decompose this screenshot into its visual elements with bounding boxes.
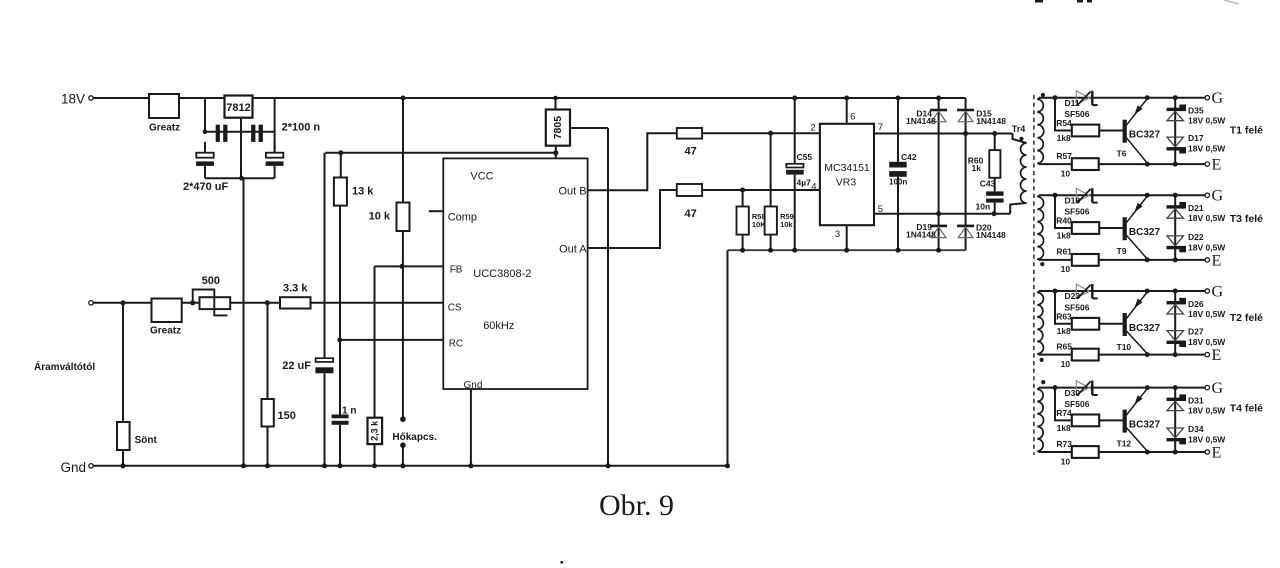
svg-text:1k8: 1k8 — [1057, 423, 1071, 433]
svg-text:47: 47 — [685, 208, 697, 220]
svg-text:100n: 100n — [889, 178, 907, 187]
svg-text:18V 0,5W: 18V 0,5W — [1188, 337, 1226, 347]
svg-text:BC327: BC327 — [1129, 323, 1161, 334]
svg-text:18V 0,5W: 18V 0,5W — [1188, 435, 1226, 445]
svg-text:1k8: 1k8 — [1057, 133, 1071, 143]
svg-text:3.3 k: 3.3 k — [283, 283, 308, 295]
svg-text:1k: 1k — [972, 163, 982, 173]
svg-text:Greatz: Greatz — [150, 326, 181, 337]
svg-text:R73: R73 — [1056, 439, 1072, 449]
svg-text:BC327: BC327 — [1129, 130, 1161, 141]
svg-text:D23: D23 — [1065, 291, 1081, 301]
svg-text:10: 10 — [1061, 456, 1071, 466]
svg-text:Obr. 9: Obr. 9 — [599, 489, 674, 522]
svg-text:Sönt: Sönt — [135, 435, 158, 446]
svg-text:D22: D22 — [1188, 232, 1204, 242]
svg-text:18V 0,5W: 18V 0,5W — [1188, 242, 1226, 252]
svg-text:VCC: VCC — [470, 171, 493, 183]
svg-text:T3 felé: T3 felé — [1230, 213, 1263, 225]
svg-text:3: 3 — [835, 229, 840, 240]
svg-text:T1 felé: T1 felé — [1230, 125, 1263, 137]
svg-text:22 uF: 22 uF — [282, 360, 311, 372]
svg-text:2: 2 — [810, 123, 815, 134]
svg-text:E: E — [1212, 347, 1222, 364]
svg-text:Gnd: Gnd — [464, 380, 483, 391]
svg-text:Gnd: Gnd — [61, 460, 87, 475]
svg-text:Áramváltótól: Áramváltótól — [34, 360, 95, 373]
svg-text:1k8: 1k8 — [1057, 230, 1071, 240]
svg-text:T2 felé: T2 felé — [1230, 312, 1263, 324]
svg-text:1 n: 1 n — [342, 406, 356, 417]
svg-text:13 k: 13 k — [352, 186, 374, 198]
svg-text:18V 0,5W: 18V 0,5W — [1188, 406, 1226, 416]
svg-text:BC327: BC327 — [1129, 419, 1161, 430]
svg-text:Tr4: Tr4 — [1012, 124, 1026, 134]
svg-text:1k8: 1k8 — [1057, 326, 1071, 336]
svg-text:MC34151: MC34151 — [824, 162, 870, 174]
svg-text:6: 6 — [850, 112, 855, 123]
svg-text:1N4148: 1N4148 — [906, 116, 936, 126]
svg-text:Hőkapcs.: Hőkapcs. — [392, 432, 437, 443]
svg-text:Out A: Out A — [559, 244, 587, 256]
svg-text:18V 0,5W: 18V 0,5W — [1188, 213, 1226, 223]
svg-text:D26: D26 — [1188, 299, 1204, 309]
svg-text:UCC3808-2: UCC3808-2 — [473, 268, 531, 280]
svg-text:R61: R61 — [1056, 247, 1072, 257]
svg-text:D27: D27 — [1188, 327, 1204, 337]
svg-text:G: G — [1212, 284, 1224, 301]
svg-text:E: E — [1212, 252, 1222, 269]
svg-text:10n: 10n — [976, 202, 991, 212]
svg-text:1N4148: 1N4148 — [976, 230, 1006, 240]
svg-text:10: 10 — [1061, 359, 1071, 369]
svg-text:500: 500 — [202, 275, 220, 287]
svg-text:7: 7 — [878, 122, 883, 133]
svg-text:2*100 n: 2*100 n — [282, 122, 321, 134]
svg-text:C55: C55 — [797, 152, 813, 162]
svg-text:D30: D30 — [1065, 388, 1081, 398]
svg-text:D35: D35 — [1188, 106, 1204, 116]
svg-text:T10: T10 — [1117, 342, 1132, 352]
svg-text:R65: R65 — [1056, 341, 1072, 351]
svg-text:E: E — [1212, 445, 1222, 462]
svg-text:10 k: 10 k — [369, 211, 391, 223]
svg-text:G: G — [1212, 380, 1224, 397]
svg-text:18V: 18V — [61, 92, 85, 107]
svg-text:150: 150 — [278, 410, 296, 422]
svg-text:D31: D31 — [1188, 395, 1204, 405]
svg-text:D18: D18 — [1065, 195, 1081, 205]
svg-text:10: 10 — [1061, 264, 1071, 274]
svg-text:D34: D34 — [1188, 424, 1204, 434]
svg-text:18V 0,5W: 18V 0,5W — [1188, 144, 1226, 154]
svg-text:2,3 k: 2,3 k — [370, 420, 380, 441]
svg-text:10k: 10k — [780, 220, 793, 229]
svg-text:10: 10 — [1061, 168, 1071, 178]
svg-text:C42: C42 — [901, 152, 917, 162]
svg-text:4: 4 — [811, 182, 816, 193]
svg-text:7812: 7812 — [226, 102, 250, 114]
svg-text:D17: D17 — [1188, 133, 1204, 143]
svg-text:T4 felé: T4 felé — [1230, 403, 1263, 415]
svg-text:R54: R54 — [1056, 118, 1072, 128]
svg-text:FB: FB — [450, 265, 463, 276]
svg-text:R57: R57 — [1056, 151, 1072, 161]
svg-text:Comp: Comp — [448, 212, 477, 224]
svg-text:R74: R74 — [1056, 408, 1072, 418]
svg-text:VR3: VR3 — [836, 177, 857, 189]
svg-text:Out B: Out B — [558, 186, 586, 198]
svg-text:RC: RC — [449, 339, 463, 350]
svg-text:4µ7: 4µ7 — [797, 178, 812, 188]
svg-text:R40: R40 — [1056, 216, 1072, 226]
svg-text:G: G — [1212, 90, 1224, 107]
svg-text:G: G — [1212, 188, 1224, 205]
svg-text:7805: 7805 — [552, 116, 564, 140]
svg-text:47: 47 — [685, 146, 697, 158]
svg-text:18V 0,5W: 18V 0,5W — [1188, 116, 1226, 126]
svg-text:1N4148: 1N4148 — [976, 116, 1006, 126]
svg-text:CS: CS — [448, 303, 462, 314]
svg-text:18V 0,5W: 18V 0,5W — [1188, 309, 1226, 319]
svg-text:T6: T6 — [1117, 149, 1127, 159]
svg-text:E: E — [1212, 157, 1222, 174]
svg-text:D11: D11 — [1065, 98, 1080, 108]
svg-text:T12: T12 — [1117, 438, 1132, 448]
svg-text:R63: R63 — [1056, 311, 1072, 321]
svg-text:1N4148: 1N4148 — [906, 230, 936, 240]
svg-text:T9: T9 — [1117, 246, 1127, 256]
svg-text:BC327: BC327 — [1129, 227, 1161, 238]
svg-text:2*470 uF: 2*470 uF — [183, 181, 229, 193]
svg-text:C43: C43 — [980, 179, 996, 189]
svg-text:60kHz: 60kHz — [483, 320, 514, 332]
svg-text:Greatz: Greatz — [149, 123, 180, 134]
svg-text:D21: D21 — [1188, 203, 1204, 213]
